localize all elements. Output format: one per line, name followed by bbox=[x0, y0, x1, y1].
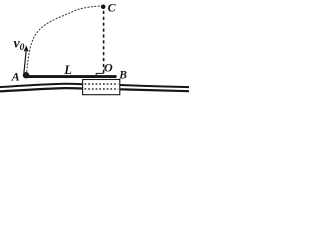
ground bottom line left segment bbox=[0, 88, 83, 91]
right angle mark at O bbox=[96, 73, 104, 75]
point C dot bbox=[101, 5, 106, 10]
trajectory dotted curve A to C bbox=[27, 6, 101, 72]
svg-text:O: O bbox=[104, 61, 113, 75]
dashed vertical line C to O bbox=[103, 11, 105, 74]
ground top line left segment bbox=[0, 84, 83, 87]
ground top line right segment bbox=[120, 85, 189, 87]
hidden ground line bottom (dotted inside block) bbox=[85, 88, 119, 90]
velocity arrow v0 bbox=[24, 52, 26, 74]
ground bottom line right segment bbox=[120, 89, 189, 91]
rod A-B bbox=[25, 75, 117, 78]
svg-text:A: A bbox=[11, 69, 20, 83]
svg-text:0: 0 bbox=[20, 43, 25, 53]
svg-text:C: C bbox=[108, 1, 117, 15]
support block bbox=[83, 80, 120, 95]
point A dot bbox=[23, 72, 29, 78]
svg-text:L: L bbox=[63, 63, 72, 77]
hidden ground line top (dotted inside block) bbox=[85, 83, 119, 85]
